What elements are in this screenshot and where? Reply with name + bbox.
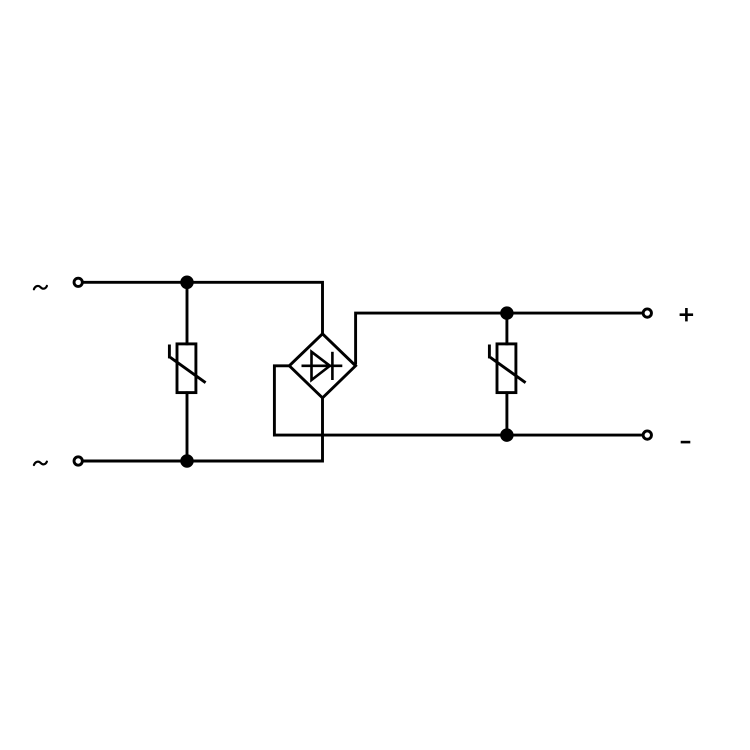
varistor RV1 strike diagonal	[170, 357, 205, 382]
varistor RV2 strike tick	[488, 345, 491, 359]
label AC tilde top	[34, 286, 47, 289]
node junction minus rail	[502, 430, 513, 441]
terminal AC input L1 (top left open circle)	[74, 278, 82, 286]
node junction top-left	[182, 277, 193, 288]
node junction plus rail	[502, 308, 513, 319]
varistor RV2 strike diagonal	[490, 357, 525, 382]
wire varistor RV1 top lead	[186, 282, 189, 345]
diode symbol cathode bar	[331, 352, 334, 380]
varistor RV2 body	[497, 344, 516, 393]
node junction bottom-left	[182, 456, 193, 467]
terminal DC plus output (open circle)	[643, 309, 651, 317]
diode symbol axis line	[302, 364, 343, 367]
rectifier bridge B1 diamond	[289, 334, 355, 398]
wire varistor RV1 bottom lead	[186, 391, 189, 461]
label plus sign	[680, 308, 694, 321]
varistor RV1 strike tick	[168, 345, 171, 359]
diode symbol anode triangle	[312, 352, 330, 380]
wire top AC horizontal with corner down to bridge top vertex	[83, 282, 323, 335]
label minus sign	[681, 441, 691, 444]
wire bridge minus output (left vertex, elbow down, right to minus terminal)	[274, 366, 642, 435]
wire bottom AC horizontal with corner up to bridge bottom vertex	[83, 397, 323, 462]
terminal DC minus output (open circle)	[643, 431, 651, 439]
wire varistor RV2 top lead	[505, 313, 508, 345]
varistor RV1 body	[177, 344, 196, 393]
wire varistor RV2 bottom lead	[505, 391, 508, 435]
wire bridge plus output (right vertex up then right to plus terminal)	[356, 313, 643, 364]
terminal AC input L2 (bottom left open circle)	[74, 457, 82, 465]
label AC tilde bottom	[34, 462, 47, 465]
